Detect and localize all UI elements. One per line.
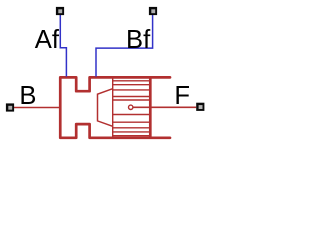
svg-text:Af: Af bbox=[35, 26, 60, 54]
wire B (red, left) bbox=[14, 107, 60, 109]
wire F (red, right from circle to terminal) bbox=[133, 106, 196, 108]
coil left edge bbox=[112, 77, 114, 137]
plunger cone bbox=[98, 89, 114, 127]
terminal B bbox=[6, 103, 14, 111]
svg-text:F: F bbox=[174, 82, 190, 110]
flange circle bbox=[129, 105, 133, 109]
terminal F bbox=[196, 103, 204, 111]
yoke (H-shaped magnetic core outline) bbox=[60, 77, 170, 137]
terminal Af bbox=[56, 7, 64, 15]
coil winding lines bbox=[113, 81, 151, 136]
terminal Bf bbox=[149, 7, 157, 15]
svg-text:Bf: Bf bbox=[126, 26, 151, 54]
svg-text:B: B bbox=[19, 82, 36, 110]
coil right edge bbox=[149, 77, 152, 137]
wire Bf (blue) bbox=[96, 15, 153, 77]
wire Af (blue) bbox=[60, 15, 66, 77]
